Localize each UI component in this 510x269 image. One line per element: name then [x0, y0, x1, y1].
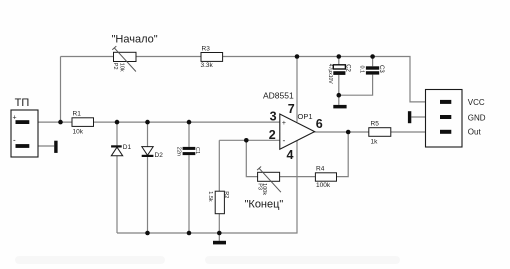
capacitor C2	[327, 64, 351, 85]
svg-text:R5: R5	[371, 120, 380, 127]
wire op-amp output to R5	[314, 131, 368, 133]
node bus C1 junction	[187, 231, 192, 236]
svg-text:100k: 100k	[316, 182, 331, 189]
op-amp U1 AD8551	[263, 91, 323, 163]
svg-text:ТП: ТП	[15, 97, 30, 109]
svg-text:"Начало": "Начало"	[112, 34, 158, 46]
svg-text:4: 4	[287, 148, 294, 162]
ground near TP	[54, 141, 57, 153]
svg-text:3: 3	[270, 110, 277, 124]
svg-text:AD8551: AD8551	[263, 91, 294, 101]
wire pin 2 line	[219, 139, 280, 141]
ground under C2	[333, 105, 346, 109]
wire TP+ to R1	[29, 121, 72, 123]
wire C2 bottom to ground	[338, 75, 340, 105]
wire pin 7 supply	[296, 57, 298, 122]
node C2 C3 ground junction	[337, 93, 342, 98]
svg-text:P2: P2	[112, 63, 118, 70]
node C1 junction	[187, 120, 192, 125]
svg-text:R2: R2	[223, 191, 229, 198]
node output junction	[346, 130, 351, 135]
svg-text:Out: Out	[468, 127, 482, 136]
svg-text:-: -	[13, 136, 16, 145]
svg-text:100k: 100k	[261, 183, 267, 195]
node bus R2 junction	[217, 231, 222, 236]
svg-text:47µx10V: 47µx10V	[327, 64, 333, 85]
potentiometer P2	[112, 46, 136, 72]
wire P3 to R4	[280, 176, 316, 178]
node rail C2 junction	[337, 54, 342, 59]
svg-text:1k: 1k	[371, 138, 379, 145]
wire C2 top stub	[338, 57, 340, 65]
node D2 junction	[145, 120, 150, 125]
node rail C3 junction	[370, 54, 375, 59]
svg-text:GND: GND	[468, 113, 486, 122]
wire C1 branch bottom	[188, 155, 190, 233]
ground near GND pin	[408, 111, 411, 123]
connector TP	[11, 97, 38, 157]
node D1 junction	[115, 120, 120, 125]
resistor R3	[201, 45, 223, 69]
capacitor C3	[358, 65, 384, 75]
watermark smudge	[15, 256, 400, 264]
capacitor C1	[176, 147, 201, 156]
svg-text:C1: C1	[194, 147, 200, 154]
svg-text:22n: 22n	[176, 147, 182, 156]
wire P3 left riser	[246, 140, 257, 176]
resistor R5	[369, 120, 391, 145]
svg-text:R4: R4	[316, 165, 325, 172]
svg-text:R1: R1	[73, 111, 82, 118]
diode D1	[111, 144, 131, 156]
wire C1 branch top	[188, 122, 190, 147]
node pin2 feedback junction	[244, 138, 249, 143]
wire R2 bottom to bus	[218, 214, 220, 233]
svg-text:10k: 10k	[118, 63, 124, 72]
svg-text:VCC: VCC	[468, 98, 485, 107]
svg-text:"Конец": "Конец"	[245, 199, 284, 211]
svg-text:+: +	[13, 115, 17, 122]
resistor R4	[315, 165, 336, 189]
wire C3 top stub	[372, 57, 374, 67]
wire TP- to ground	[29, 145, 54, 147]
wire ground to GND pin	[411, 116, 440, 118]
svg-text:1.5k: 1.5k	[207, 191, 213, 202]
svg-text:OP1: OP1	[298, 112, 313, 121]
svg-text:D1: D1	[123, 144, 132, 151]
svg-text:+: +	[282, 120, 286, 127]
resistor R1	[72, 111, 94, 136]
svg-text:10k: 10k	[73, 129, 84, 136]
wire R1 to pin 3	[94, 121, 281, 123]
wire top rail corner to P2	[61, 56, 114, 58]
svg-text:-: -	[283, 135, 286, 145]
node rail pin7 junction	[295, 54, 300, 59]
wire R3 to VCC pin	[223, 57, 440, 102]
svg-text:0.1: 0.1	[358, 66, 364, 74]
resistor R2	[207, 191, 229, 214]
node A TP/R1/rail junction	[58, 120, 63, 125]
svg-text:D2: D2	[155, 152, 164, 159]
svg-text:7: 7	[288, 102, 295, 116]
svg-text:3.3k: 3.3k	[201, 62, 214, 69]
svg-text:6: 6	[316, 117, 323, 131]
wire bottom bus and pin 4	[117, 140, 297, 233]
node bus D2 junction	[145, 231, 150, 236]
svg-text:2: 2	[269, 128, 276, 142]
wire D1 branch	[116, 122, 118, 233]
svg-text:C3: C3	[378, 65, 384, 73]
svg-text:C2: C2	[344, 64, 350, 72]
wire ground stub under bus	[218, 233, 220, 241]
wire R2 top riser	[218, 140, 220, 191]
diode D2	[142, 147, 163, 159]
wire D2 branch	[147, 122, 149, 233]
wire R4 to output riser	[337, 132, 349, 177]
wire P2 to R3	[136, 56, 201, 58]
wire riser node A to top rail	[60, 57, 62, 123]
ground under R2	[213, 241, 226, 245]
potentiometer P3	[256, 167, 281, 196]
wire C3 bottom join	[339, 75, 373, 96]
connector X2 output	[426, 90, 486, 148]
svg-text:R3: R3	[202, 45, 211, 52]
wire R5 to Out pin	[391, 131, 440, 133]
